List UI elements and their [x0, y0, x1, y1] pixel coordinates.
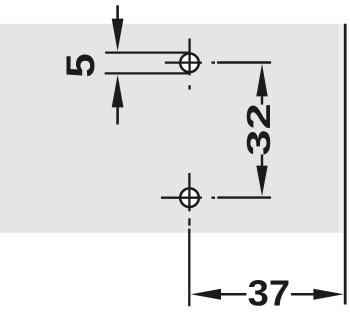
svg-text:5: 5: [59, 53, 103, 78]
svg-text:32: 32: [240, 103, 277, 156]
svg-text:37: 37: [248, 273, 291, 314]
